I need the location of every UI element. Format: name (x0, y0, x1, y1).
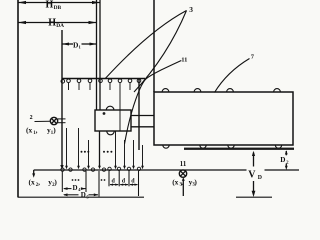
svg-text:11: 11 (180, 161, 187, 168)
svg-text:,: , (36, 126, 38, 135)
svg-text:DB: DB (54, 5, 62, 11)
svg-text:d: d (131, 178, 135, 184)
svg-text:,: , (181, 178, 183, 187)
svg-text:): ) (53, 126, 56, 135)
svg-text:D: D (81, 191, 86, 199)
svg-text:D: D (73, 184, 78, 192)
svg-text:(x: (x (26, 126, 32, 135)
svg-text:H: H (46, 0, 54, 10)
svg-text:11: 11 (181, 57, 187, 64)
svg-text:1: 1 (79, 45, 82, 50)
svg-text:D: D (280, 156, 285, 164)
svg-text:(x: (x (172, 178, 178, 187)
svg-text:7: 7 (251, 54, 254, 61)
svg-text:d: d (122, 178, 126, 184)
svg-text:,: , (38, 178, 40, 187)
svg-text:DA: DA (56, 23, 64, 29)
svg-text:H: H (48, 18, 56, 29)
svg-text:2: 2 (286, 159, 289, 164)
svg-text:2: 2 (30, 115, 33, 121)
svg-text:): ) (54, 178, 57, 187)
svg-text:d: d (112, 178, 116, 184)
svg-text:): ) (194, 178, 197, 187)
svg-text:(x: (x (29, 178, 35, 187)
svg-text:V: V (248, 169, 256, 180)
svg-text:3: 3 (189, 5, 193, 14)
svg-text:D: D (258, 175, 262, 181)
